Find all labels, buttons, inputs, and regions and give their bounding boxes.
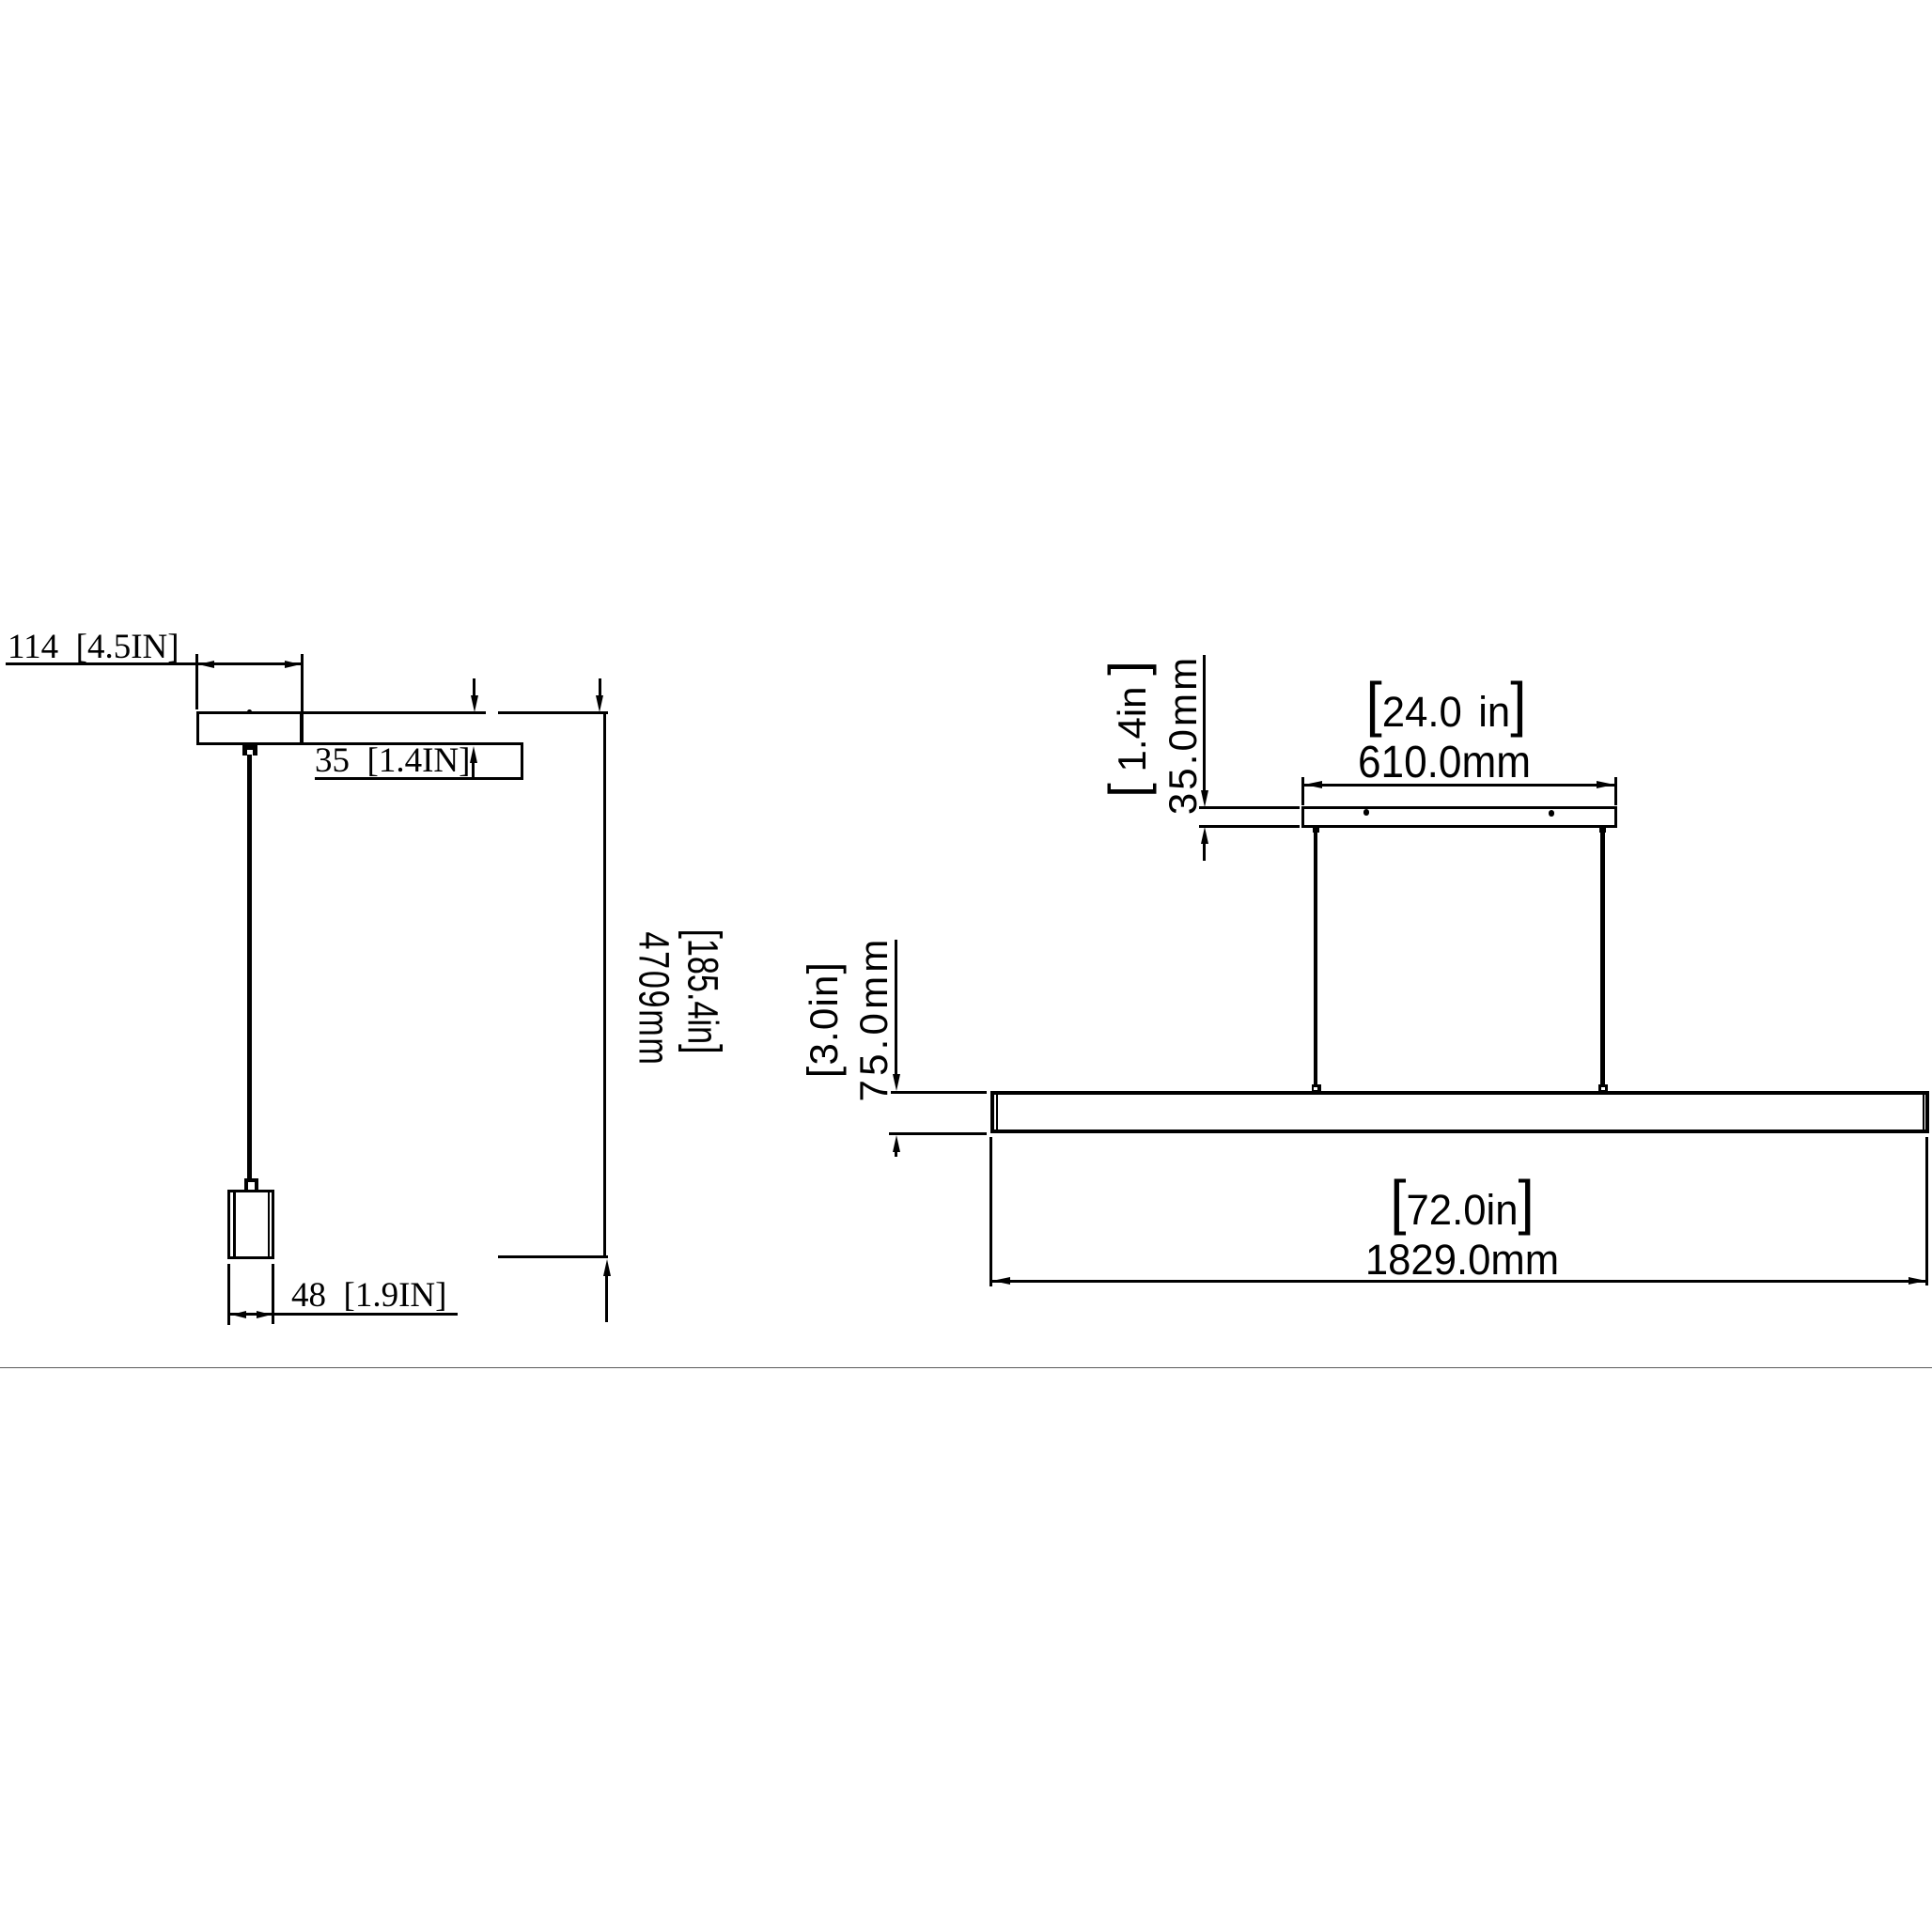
canopy (front view)	[1301, 806, 1617, 828]
dim 35.0mm upper line	[1203, 655, 1206, 790]
canopy screw dot right	[1549, 810, 1555, 817]
dim 35.0mm up arrow head	[1201, 827, 1208, 844]
dim 610 arrow right	[1597, 781, 1614, 788]
label 35 [1.4IN]	[315, 743, 470, 778]
dim 35 up arrow head	[470, 746, 477, 763]
label 48 [1.9IN]	[291, 1278, 446, 1313]
cable left bottom nub	[1312, 1084, 1321, 1093]
cylinder inner line right	[268, 1192, 271, 1256]
suspension cable right (front view)	[1600, 828, 1604, 1091]
canopy centre screw dot	[247, 709, 252, 714]
dim 4709 top arrow head	[596, 695, 603, 712]
bar inner end line left	[996, 1094, 998, 1130]
dim 1829 extension line right	[1925, 1137, 1928, 1286]
label 4709mm (rotated line 2)	[653, 998, 655, 1000]
dim 4709 bottom terminator line	[498, 1255, 608, 1258]
page divider line	[0, 1367, 1932, 1369]
canopy top extension line segment 1	[303, 711, 486, 714]
dim 4709 bottom arrow shaft	[605, 1275, 608, 1322]
canopy bottom extension line	[303, 742, 523, 745]
extension line right of 114 dim	[301, 654, 304, 744]
dim 35 down arrow shaft	[473, 678, 475, 696]
canopy (side view)	[196, 711, 303, 745]
bar bottom extension to left	[889, 1132, 987, 1135]
dim 610 extension line left	[1301, 777, 1304, 805]
dim line 114 (leader + dimension)	[6, 662, 302, 665]
label 75.0mm (rotated line 2)	[873, 1018, 875, 1020]
dim 4709 top arrow shaft	[599, 678, 601, 696]
dim 1829 line	[991, 1280, 1926, 1283]
extension line left of 114 dim	[195, 654, 198, 709]
dim 4709 bottom arrow head	[603, 1259, 611, 1276]
dim 48 line + leader	[230, 1313, 458, 1316]
dim 75.0mm down arrow head	[893, 1074, 900, 1091]
label 114 [4.5IN]	[8, 630, 179, 664]
label 1829.0mm	[1365, 1239, 1559, 1281]
label 610.0mm	[1358, 740, 1531, 786]
dim 610 extension line right	[1614, 777, 1617, 805]
cable right bottom nub	[1598, 1084, 1608, 1093]
dim 114 arrow right	[285, 661, 301, 668]
bar inner end line right	[1923, 1094, 1924, 1130]
dim 35 down arrow head	[471, 695, 478, 712]
dim 1829 extension line left	[989, 1137, 992, 1286]
dim 48 extension line left	[227, 1264, 230, 1325]
cable top knob	[242, 745, 258, 756]
socket cylinder	[227, 1190, 274, 1259]
cable right top flare	[1599, 828, 1606, 833]
canopy top extension to left	[1199, 806, 1300, 809]
canopy bottom extension to left	[1199, 825, 1300, 828]
socket nub above cylinder	[244, 1178, 258, 1192]
dim 35.0mm lower shaft	[1203, 842, 1206, 861]
suspension cable left (front view)	[1314, 828, 1317, 1091]
label 35.0mm (rotated line 2)	[1182, 734, 1184, 736]
dim 75.0mm up arrow head	[893, 1135, 900, 1152]
canopy screw dot left	[1363, 809, 1370, 816]
dim 75.0mm lower shaft	[895, 1151, 897, 1157]
label [185.4in] 4709mm (rotated)	[702, 990, 704, 992]
label [72.0in]	[1390, 1189, 1534, 1231]
cylinder inner line left	[233, 1192, 236, 1256]
cable left top flare	[1313, 828, 1319, 833]
dim 1829 arrow left	[992, 1277, 1010, 1285]
dim 610 arrow left	[1304, 781, 1322, 788]
dim 48 arrow right	[257, 1311, 272, 1318]
dim 35.0mm down arrow head	[1201, 790, 1208, 807]
dim 1829 arrow right	[1909, 1277, 1926, 1285]
dim 610 line	[1303, 784, 1615, 787]
light bar (front view)	[990, 1091, 1929, 1134]
dim 48 arrow left	[231, 1311, 246, 1318]
dim 75.0mm upper line	[895, 940, 897, 1075]
dim 35 up arrow shaft	[472, 761, 475, 780]
label [24.0 in]	[1366, 691, 1527, 733]
dim 4709 vertical line	[603, 711, 606, 1259]
label [1.4in] 35.0mm (rotated)	[1131, 728, 1133, 730]
canopy top extension line segment 2 (4709 top terminator)	[498, 711, 608, 714]
dim 48 extension line right	[272, 1264, 274, 1324]
bar top extension to left	[891, 1091, 988, 1094]
label [3.0in] 75.0mm (rotated)	[823, 1019, 825, 1021]
dim 114 arrow left	[198, 661, 214, 668]
suspension cable (side view)	[247, 755, 252, 1180]
dim 35 leader underline	[315, 777, 523, 780]
dim 35 leader riser	[521, 743, 523, 780]
